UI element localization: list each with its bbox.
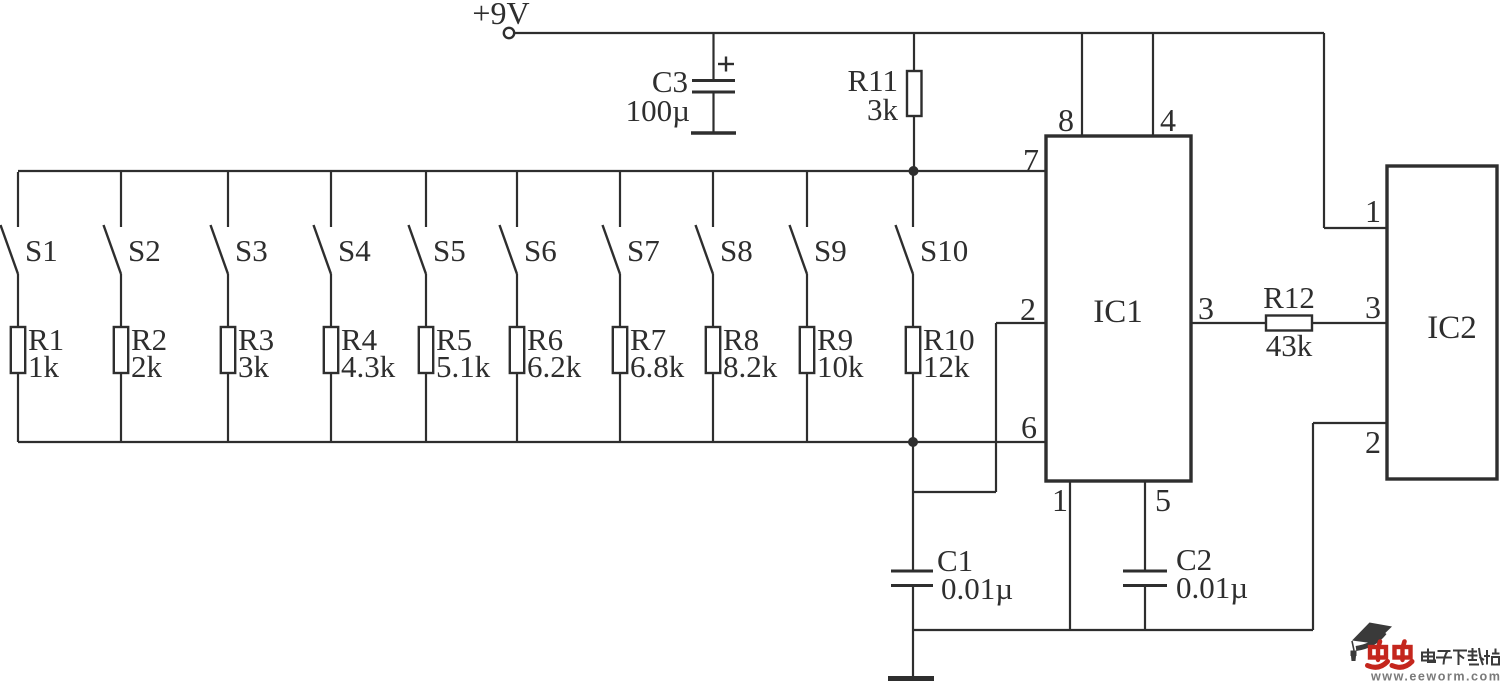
resistor R12 43k (1263, 280, 1387, 363)
capacitor C2 0.01u (1123, 542, 1248, 630)
svg-text:3k: 3k (238, 349, 270, 384)
svg-text:7: 7 (1023, 142, 1039, 178)
capacitor C3 100u electrolytic (626, 33, 736, 133)
svg-text:S6: S6 (524, 233, 557, 268)
pin 4 IC1 wire (1153, 33, 1176, 138)
svg-text:10k: 10k (817, 349, 864, 384)
wire: +9V top rail (515, 32, 1325, 34)
ground symbol (888, 630, 934, 681)
wire: ground rail bottom (913, 629, 1313, 631)
logo text dianzi xiazaizhan (1422, 648, 1500, 665)
resistor R9 10k (800, 274, 864, 442)
wire: switch bank bottom rail to IC1 pin6 (18, 441, 1046, 443)
svg-text:5: 5 (1155, 482, 1171, 518)
switch S7 (603, 172, 660, 274)
svg-text:+9V: +9V (472, 0, 529, 31)
svg-text:S5: S5 (433, 233, 466, 268)
resistor R11 3k (847, 33, 921, 171)
resistor R10 12k (906, 274, 975, 442)
switch S1 (1, 172, 58, 274)
svg-text:2: 2 (1365, 424, 1381, 460)
pin 3 IC1 wire (1191, 290, 1266, 326)
svg-text:2k: 2k (131, 349, 163, 384)
switch S4 (314, 172, 372, 274)
switch S8 (696, 172, 753, 274)
svg-text:6: 6 (1021, 409, 1037, 445)
resistor R7 6.8k (613, 274, 685, 442)
svg-text:1: 1 (1052, 482, 1068, 518)
svg-text:4: 4 (1160, 102, 1176, 138)
resistor R2 2k (114, 274, 167, 442)
svg-text:1k: 1k (28, 349, 60, 384)
svg-text:6.2k: 6.2k (527, 349, 582, 384)
node: junction bottom rail / C1 branch (908, 437, 918, 447)
pin 5 IC1 wire (1145, 481, 1171, 570)
wire: pin2 to C1 node (L shape) (913, 323, 996, 492)
pin 8 IC1 wire (1058, 33, 1082, 138)
svg-text:S2: S2 (128, 233, 161, 268)
resistor R6 6.2k (510, 274, 582, 442)
svg-text:S7: S7 (627, 233, 660, 268)
svg-text:100µ: 100µ (626, 93, 690, 128)
resistor R5 5.1k (419, 274, 491, 442)
svg-text:3: 3 (1198, 290, 1214, 326)
svg-text:IC2: IC2 (1427, 310, 1477, 346)
resistor R1 1k (11, 274, 64, 442)
pin 1 IC1 wire (1052, 481, 1070, 630)
wire: switch bank top rail to IC1 pin7 (18, 170, 1046, 172)
resistor R8 8.2k (706, 274, 778, 442)
capacitor C1 0.01u (891, 442, 1013, 630)
resistor R3 3k (221, 274, 274, 442)
op IC2 body (1387, 166, 1497, 479)
svg-text:R12: R12 (1263, 280, 1315, 315)
+9V supply terminal (472, 0, 529, 38)
switch S6 (500, 172, 557, 274)
pin 2 IC2 wire (1313, 423, 1387, 630)
switch S2 (104, 172, 161, 274)
svg-text:6.8k: 6.8k (630, 349, 685, 384)
switch S10 (896, 172, 969, 274)
node: junction R11-S10 top rail (909, 166, 919, 176)
svg-text:43k: 43k (1266, 328, 1313, 363)
svg-text:S1: S1 (25, 233, 58, 268)
svg-text:www.eeworm.com: www.eeworm.com (1370, 670, 1501, 681)
svg-text:12k: 12k (923, 349, 970, 384)
svg-text:S3: S3 (235, 233, 268, 268)
svg-text:S8: S8 (720, 233, 753, 268)
svg-text:3k: 3k (867, 92, 899, 127)
svg-text:IC1: IC1 (1093, 294, 1143, 330)
svg-text:0.01µ: 0.01µ (1176, 570, 1248, 605)
svg-text:S4: S4 (338, 233, 371, 268)
svg-text:4.3k: 4.3k (341, 349, 396, 384)
svg-text:5.1k: 5.1k (436, 349, 491, 384)
wire: top rail down to IC2 pin 1 (1324, 33, 1387, 228)
resistor R4 4.3k (324, 274, 396, 442)
op IC1 (555 timer) body (1046, 136, 1191, 481)
switch S9 (790, 172, 847, 274)
svg-text:2: 2 (1020, 291, 1036, 327)
svg-text:3: 3 (1365, 289, 1381, 325)
svg-text:8.2k: 8.2k (723, 349, 778, 384)
switch S5 (409, 172, 466, 274)
logo graduation cap (1351, 623, 1393, 662)
svg-text:8: 8 (1058, 102, 1074, 138)
switch S3 (211, 172, 268, 274)
svg-text:0.01µ: 0.01µ (941, 571, 1013, 606)
svg-text:S10: S10 (920, 233, 968, 268)
pin 2 IC1 wire (996, 291, 1046, 327)
svg-text:S9: S9 (814, 233, 847, 268)
svg-text:1: 1 (1365, 193, 1381, 229)
logo red worm characters (1368, 642, 1413, 668)
